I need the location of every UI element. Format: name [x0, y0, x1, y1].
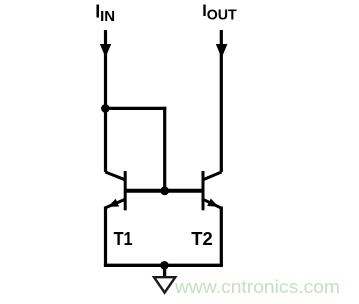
- wire emitter T2: [220, 207, 223, 267]
- wire base column (vertical): [163, 107, 166, 191]
- node B: base junction dot: [160, 186, 169, 195]
- wire ground stub: [163, 265, 166, 276]
- svg-text:www.cntronics.com: www.cntronics.com: [174, 277, 340, 297]
- arrowhead output current: [216, 44, 228, 58]
- wire emitter T1: [104, 207, 107, 267]
- arrowhead input current: [100, 44, 111, 58]
- wire base bus: [126, 189, 202, 193]
- ground symbol: [154, 277, 175, 292]
- transistor T2: [203, 171, 222, 210]
- wire emitter bus (bottom): [104, 264, 223, 267]
- svg-text:T2: T2: [191, 228, 213, 249]
- transistor T1: [105, 171, 125, 210]
- wire collector T1: [104, 108, 107, 172]
- wire input line (top): [104, 30, 107, 109]
- svg-text:IN: IN: [100, 8, 115, 25]
- svg-text:OUT: OUT: [207, 7, 237, 24]
- node A: input/collector/base junction dot: [101, 104, 110, 113]
- label I_OUT: [202, 2, 236, 24]
- node C: ground junction dot: [160, 261, 169, 270]
- label I_IN: [95, 2, 115, 26]
- svg-text:T1: T1: [114, 228, 133, 249]
- wire output line (top): [220, 30, 223, 172]
- wire node A to base column (horizontal): [104, 107, 166, 110]
